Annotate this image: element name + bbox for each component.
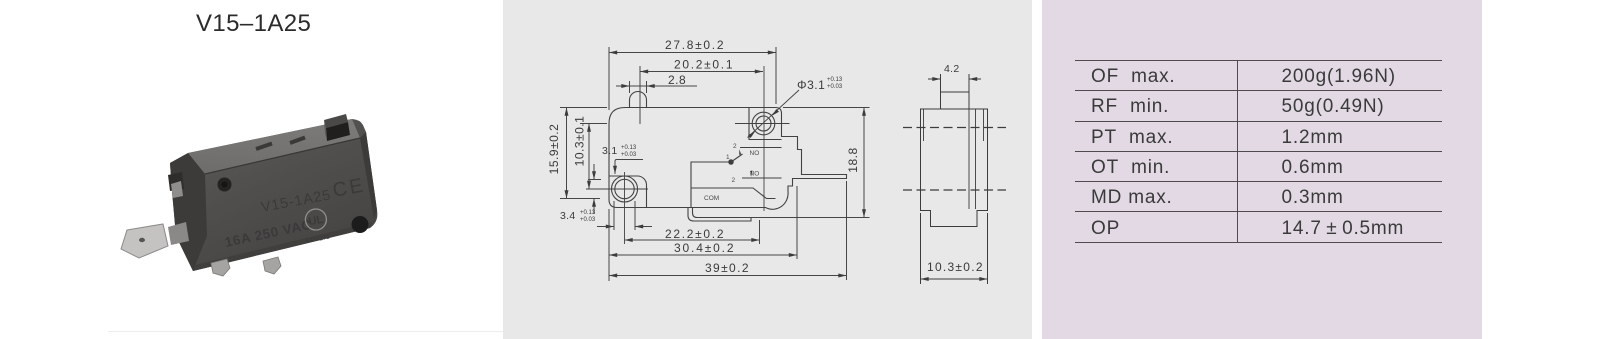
specification table [1075,60,1442,243]
svg-text:+0.13: +0.13 [827,77,843,83]
photo: big blade terminal [168,222,189,245]
end view dashed center line lower [903,189,1006,191]
end view inner right line [983,109,985,141]
3.4 dimension arrows [597,226,614,228]
photo: top face slot 2 [290,138,305,144]
30.4 right extension [796,186,798,259]
svg-text:NO: NO [750,150,760,157]
end view dashed center line upper [903,127,1006,129]
end view inner left line [923,109,925,141]
plunger dome [630,92,647,108]
photo: plunger button bevel top [324,114,348,128]
20.2 dimension line [640,71,763,73]
svg-text:39±0.2: 39±0.2 [705,261,749,275]
pink table panel background [1042,0,1482,339]
bottom hole vertical crosshair / 22.2 extension [624,172,626,244]
svg-text:+0.03: +0.03 [827,84,843,90]
svg-text:20.2±0.1: 20.2±0.1 [674,58,733,72]
phi3.1 leader arrowheads on circle [748,109,779,138]
upper NO contact line [740,147,782,149]
svg-text:1: 1 [726,154,730,161]
10.3 dimension line [921,278,988,280]
bottom hole horizontal crosshair [586,188,648,190]
39 dimension line [609,275,847,277]
svg-text:COM: COM [704,195,719,202]
svg-text:4.2: 4.2 [944,63,960,75]
3.1 vertical arrows [593,164,595,180]
10.3 dimension line [588,124,590,190]
end view body [921,109,988,227]
photo: left end face (dark) [170,153,207,271]
svg-text:10.3±0.2: 10.3±0.2 [927,260,983,274]
svg-text:Φ3.1: Φ3.1 [797,78,825,92]
photo: bottom dark band [193,222,372,271]
photo: right mounting hole [352,216,369,233]
photo: right side sliver [360,132,377,219]
contact pivot dot [729,160,733,164]
photo: body silhouette (front face base) [170,119,377,271]
4.2 extension lines [940,74,942,95]
20.2 extension lines [639,66,641,124]
svg-text:3.4: 3.4 [560,210,576,222]
bottom-left hole outer circle [612,176,638,202]
2.8 extension ticks [629,81,631,93]
2.8 dimension line with outside arrows [616,85,630,87]
top-right mounting hole block [749,108,782,140]
lower NO contact line [742,177,782,179]
top-right hole outer circle [752,112,775,135]
3.4 extension lines [613,201,615,230]
18.8 bottom extension [740,217,870,219]
22.2 right extension [759,220,761,244]
svg-text:18.8: 18.8 [846,147,860,172]
svg-text:+0.03: +0.03 [580,217,596,223]
photo: right bottom terminal [263,257,281,274]
10.3 extension lines [920,213,922,284]
photo: plunger button front [326,122,350,141]
photo: left metal clip [171,181,183,198]
end view plunger [941,92,970,109]
contact blade [731,154,743,162]
photo: front-top seam line [205,138,360,174]
18.8 top extension [783,107,870,109]
svg-text:22.2±0.2: 22.2±0.2 [665,227,724,241]
15.9 dimension line [566,108,568,199]
phi3.1 leader line [748,90,800,138]
svg-text:30.4±0.2: 30.4±0.2 [674,241,734,255]
faint bottom line of left panel [108,331,503,332]
svg-text:2: 2 [732,177,736,184]
svg-text:+0.13: +0.13 [580,210,596,216]
svg-text:+0.03: +0.03 [621,152,637,158]
part number title [196,10,496,38]
15.9 extension lines [560,107,607,109]
3.1 label leader [615,160,643,175]
gray drawing panel background [503,0,1032,339]
top hole horizontal crosshair [735,123,790,125]
22.2 dimension line [625,239,760,241]
bottom-left mounting hole block [610,176,647,208]
COM feed line [691,161,729,163]
svg-text:2: 2 [733,143,737,150]
3.1 hole top edge tick [588,179,601,181]
photo: top face of switch [188,119,360,174]
photo: upper-left mounting hole [218,178,232,192]
svg-text:NO: NO [750,171,760,178]
COM plate [691,162,776,208]
10.3 extension line [580,123,607,125]
bottom-left hole inner circle [615,179,634,198]
svg-text:+0.13: +0.13 [621,145,637,151]
photo: UL logo [304,207,328,231]
photo: left clip protrusion [168,172,184,191]
COM bent terminal bracket [688,208,751,222]
27.8 dimension line [609,52,776,54]
photo: top face slot 1 [256,144,272,150]
photo: middle bottom terminal [211,259,230,276]
svg-text:2.8: 2.8 [668,73,686,87]
top hole vertical crosshair / 20.2 extension [763,66,765,211]
arrow above lower NO line [751,171,753,177]
30.4 dimension line [609,254,797,256]
18.8 dimension line [863,108,865,218]
top-right hole inner circle [756,116,771,131]
39 right extension [846,181,848,280]
30.4 left extension [608,209,610,281]
svg-text:3.1: 3.1 [602,145,618,157]
27.8 extension lines [608,47,610,110]
svg-text:10.3±0.1: 10.3±0.1 [573,116,587,167]
svg-text:15.9±0.2: 15.9±0.2 [547,124,561,175]
svg-text:27.8±0.2: 27.8±0.2 [665,38,724,52]
switch body outline [609,108,847,210]
small arrows of contact labels [739,149,752,177]
end view internal line b [975,109,977,209]
end view internal line a [968,109,970,209]
arrow from upper 2 to blade [739,149,741,155]
4.2 dimension arrows [928,78,941,80]
